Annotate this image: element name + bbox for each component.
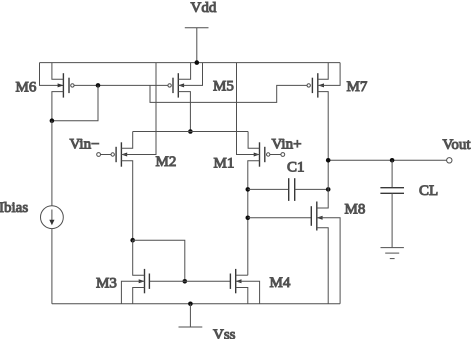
wire: rail left corner down to M6 bulk bbox=[40, 63, 64, 86]
transistor M4 (NMOS mirror, gate on left) bbox=[230, 269, 259, 304]
svg-text:Vout: Vout bbox=[443, 137, 472, 153]
svg-text:M8: M8 bbox=[345, 202, 366, 218]
wire: M8 gate wire bbox=[248, 217, 311, 219]
svg-text:M4: M4 bbox=[270, 275, 291, 291]
svg-text:Vin−: Vin− bbox=[70, 136, 100, 152]
svg-text:CL: CL bbox=[419, 183, 438, 199]
wire: bottom VSS rail bbox=[52, 303, 340, 305]
capacitor C1 bbox=[248, 178, 328, 201]
wire: M3 diode link bbox=[133, 240, 185, 281]
transistor M5 (PMOS tail source, gate on left) bbox=[168, 63, 203, 132]
node: CL tap dot bbox=[390, 158, 395, 163]
node: C1 right dot bbox=[326, 187, 331, 192]
wire: Ibias to bottom rail bbox=[51, 229, 53, 304]
transistor M7 (PMOS 2nd-stage load, gate on left) bbox=[307, 63, 340, 161]
transistor M3 (NMOS mirror, gate on right) bbox=[121, 240, 149, 304]
svg-text:M7: M7 bbox=[347, 79, 368, 95]
wire: left column down to Ibias bbox=[51, 121, 53, 206]
svg-text:M5: M5 bbox=[213, 79, 234, 95]
ground symbol under CL bbox=[381, 248, 404, 259]
node: M6 drain / Ibias dot bbox=[50, 118, 55, 123]
transistor M6 (PMOS, diode-connected, gate on right) bbox=[52, 63, 74, 121]
wire: M6 diode link bbox=[52, 85, 98, 120]
svg-text:M6: M6 bbox=[16, 80, 37, 96]
capacitor CL bbox=[380, 160, 404, 247]
svg-text:Vin+: Vin+ bbox=[272, 136, 302, 152]
svg-text:Vdd: Vdd bbox=[191, 0, 217, 16]
svg-text:M3: M3 bbox=[96, 276, 117, 292]
transistor M2 (PMOS input, gate on left) bbox=[111, 63, 156, 241]
wire: tail rail bbox=[133, 131, 248, 133]
wire: M6 gate to M5 gate bbox=[74, 84, 168, 86]
output terminal Vout bbox=[447, 158, 452, 163]
node: M3-M4 gate dot bbox=[183, 279, 188, 284]
wire: Vout wire bbox=[328, 159, 447, 161]
svg-text:M2: M2 bbox=[156, 154, 177, 170]
Vdd supply symbol bbox=[185, 28, 209, 63]
transistor M1 (PMOS input, gate on right) bbox=[237, 63, 270, 276]
node: Vout / M7-M8 dot bbox=[326, 158, 331, 163]
node: first-stage output / C1 dot bbox=[246, 187, 251, 192]
wire: VDD top rail bbox=[40, 62, 341, 64]
Vss supply symbol bbox=[179, 304, 203, 327]
wire: mirror gate route to M7 bbox=[150, 85, 307, 102]
node: M5 drain to tail dot bbox=[188, 129, 193, 134]
node: Vss tap dot bbox=[188, 302, 193, 307]
input terminal Vin- bbox=[97, 153, 111, 157]
svg-text:C1: C1 bbox=[287, 160, 305, 176]
input terminal Vin+ bbox=[270, 153, 285, 157]
node: Vdd-rail junction bbox=[195, 60, 200, 65]
svg-text:Vss: Vss bbox=[213, 327, 236, 339]
node: M6 gate-drain dot bbox=[96, 83, 101, 88]
transistor M8 (NMOS output, gate on left) bbox=[311, 160, 340, 303]
svg-text:M1: M1 bbox=[214, 155, 235, 171]
node: M2 drain / mirror dot bbox=[130, 238, 135, 243]
svg-text:Ibias: Ibias bbox=[0, 200, 28, 216]
node: M8 gate dot bbox=[246, 216, 251, 221]
wire: M3-M4 gate wire bbox=[149, 280, 230, 282]
current source Ibias bbox=[41, 206, 64, 229]
